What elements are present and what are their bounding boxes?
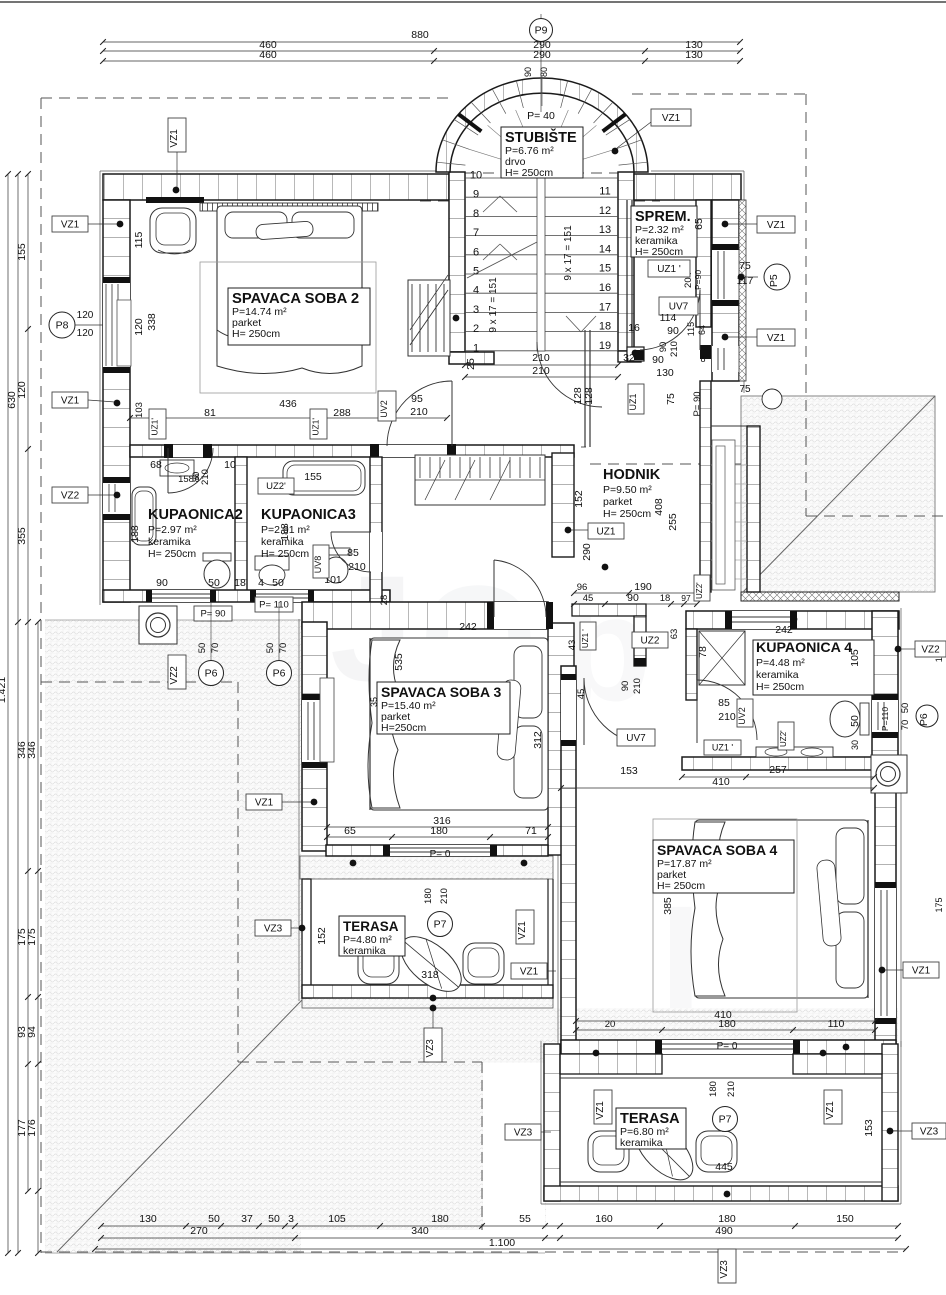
svg-text:180: 180 bbox=[430, 825, 448, 837]
svg-text:UZ2: UZ2 bbox=[641, 635, 660, 646]
svg-text:25: 25 bbox=[465, 358, 477, 370]
svg-text:VZ3: VZ3 bbox=[264, 923, 283, 934]
svg-text:880: 880 bbox=[411, 29, 429, 41]
svg-text:UZ1': UZ1' bbox=[311, 418, 321, 436]
svg-text:P= 0: P= 0 bbox=[430, 849, 451, 860]
svg-text:65: 65 bbox=[693, 218, 705, 230]
svg-text:9 x 17 = 151: 9 x 17 = 151 bbox=[563, 225, 574, 281]
svg-text:50: 50 bbox=[208, 1213, 220, 1225]
svg-text:8: 8 bbox=[473, 208, 479, 220]
svg-text:460: 460 bbox=[259, 49, 277, 61]
svg-text:VZ1: VZ1 bbox=[520, 966, 539, 977]
svg-text:UZ1: UZ1 bbox=[628, 393, 638, 410]
svg-text:UZ1': UZ1' bbox=[150, 418, 160, 436]
svg-text:55: 55 bbox=[519, 1213, 531, 1225]
svg-text:90: 90 bbox=[523, 67, 533, 77]
svg-text:155: 155 bbox=[16, 243, 28, 261]
svg-text:SPAVACA SOBA 3: SPAVACA SOBA 3 bbox=[381, 684, 502, 700]
svg-text:keramika: keramika bbox=[343, 945, 386, 957]
svg-text:50: 50 bbox=[208, 577, 220, 589]
svg-text:P= 110: P= 110 bbox=[259, 600, 289, 611]
svg-text:90: 90 bbox=[667, 325, 679, 337]
svg-text:VZ3: VZ3 bbox=[920, 1126, 939, 1137]
svg-text:16: 16 bbox=[599, 282, 611, 294]
svg-text:50: 50 bbox=[268, 1213, 280, 1225]
svg-text:210: 210 bbox=[348, 561, 366, 573]
svg-text:175: 175 bbox=[26, 928, 38, 946]
svg-text:VZ1: VZ1 bbox=[517, 921, 528, 940]
svg-text:385: 385 bbox=[662, 897, 674, 915]
svg-text:210: 210 bbox=[532, 352, 550, 364]
svg-text:9: 9 bbox=[473, 189, 479, 201]
svg-text:180: 180 bbox=[708, 1081, 719, 1097]
svg-text:UV7: UV7 bbox=[626, 733, 646, 744]
svg-text:340: 340 bbox=[411, 1225, 429, 1237]
svg-text:75: 75 bbox=[739, 260, 751, 272]
svg-text:436: 436 bbox=[279, 398, 297, 410]
svg-text:VZ1: VZ1 bbox=[825, 1101, 836, 1120]
svg-text:UZ2': UZ2' bbox=[266, 481, 286, 492]
svg-text:255: 255 bbox=[667, 513, 679, 531]
svg-text:35: 35 bbox=[369, 697, 379, 707]
svg-text:UV7: UV7 bbox=[669, 301, 689, 312]
svg-text:VZ1: VZ1 bbox=[169, 129, 180, 148]
svg-text:270: 270 bbox=[190, 1225, 208, 1237]
svg-text:70: 70 bbox=[900, 720, 911, 731]
svg-text:SPAVACA SOBA 2: SPAVACA SOBA 2 bbox=[232, 291, 359, 307]
svg-text:28: 28 bbox=[379, 595, 390, 606]
svg-text:15: 15 bbox=[599, 263, 611, 275]
svg-text:14: 14 bbox=[599, 243, 611, 255]
svg-text:120: 120 bbox=[77, 310, 94, 321]
svg-text:115: 115 bbox=[133, 231, 145, 248]
svg-text:78: 78 bbox=[697, 646, 709, 658]
svg-text:P6: P6 bbox=[918, 713, 930, 726]
svg-text:318: 318 bbox=[421, 969, 439, 981]
svg-text:257: 257 bbox=[769, 764, 787, 776]
svg-text:210: 210 bbox=[439, 888, 450, 904]
svg-text:110: 110 bbox=[828, 1018, 845, 1030]
svg-text:SPAVACA SOBA 4: SPAVACA SOBA 4 bbox=[657, 842, 778, 858]
svg-text:128: 128 bbox=[583, 387, 595, 405]
svg-text:64: 64 bbox=[697, 325, 707, 335]
svg-text:13: 13 bbox=[599, 224, 611, 236]
svg-text:96: 96 bbox=[577, 582, 588, 593]
svg-text:P= 0: P= 0 bbox=[717, 1041, 738, 1052]
svg-text:188: 188 bbox=[129, 525, 141, 543]
svg-text:90: 90 bbox=[620, 681, 631, 692]
svg-text:VZ2: VZ2 bbox=[61, 490, 80, 501]
svg-text:HODNIK: HODNIK bbox=[603, 467, 661, 483]
svg-text:VZ1: VZ1 bbox=[912, 965, 931, 976]
svg-text:346: 346 bbox=[26, 741, 38, 759]
svg-text:keramika: keramika bbox=[620, 1137, 663, 1149]
svg-text:P= 90: P= 90 bbox=[692, 391, 703, 416]
svg-text:155: 155 bbox=[304, 471, 322, 483]
svg-text:5: 5 bbox=[473, 266, 479, 278]
svg-text:TERASA: TERASA bbox=[343, 919, 399, 934]
svg-text:H= 250cm: H= 250cm bbox=[756, 681, 804, 693]
svg-text:90: 90 bbox=[156, 577, 168, 589]
svg-text:P=2.97 m²: P=2.97 m² bbox=[148, 524, 197, 536]
svg-text:VZ1: VZ1 bbox=[595, 1101, 606, 1120]
svg-text:95: 95 bbox=[411, 393, 423, 405]
svg-text:2: 2 bbox=[473, 323, 479, 335]
svg-text:153: 153 bbox=[863, 1119, 875, 1137]
svg-text:KUPAONICA3: KUPAONICA3 bbox=[261, 507, 356, 523]
svg-text:30: 30 bbox=[850, 740, 860, 750]
svg-text:290: 290 bbox=[533, 49, 551, 61]
svg-text:90: 90 bbox=[652, 354, 664, 366]
svg-text:P6: P6 bbox=[205, 668, 218, 680]
svg-text:105: 105 bbox=[849, 649, 861, 667]
svg-text:6: 6 bbox=[473, 246, 479, 258]
svg-text:180: 180 bbox=[718, 1018, 736, 1030]
svg-text:210: 210 bbox=[632, 678, 643, 694]
svg-text:70: 70 bbox=[210, 643, 221, 654]
svg-text:180: 180 bbox=[431, 1213, 449, 1225]
svg-text:UV2: UV2 bbox=[737, 707, 747, 725]
svg-text:90: 90 bbox=[627, 592, 639, 604]
svg-text:UZ1 ': UZ1 ' bbox=[712, 742, 734, 752]
svg-text:210: 210 bbox=[532, 365, 550, 377]
svg-text:288: 288 bbox=[333, 407, 351, 419]
svg-text:VZ2: VZ2 bbox=[169, 666, 180, 685]
svg-text:180: 180 bbox=[423, 888, 434, 904]
svg-text:parket: parket bbox=[603, 496, 632, 508]
svg-text:VZ1: VZ1 bbox=[61, 395, 80, 406]
svg-text:P7: P7 bbox=[434, 919, 447, 931]
svg-text:18: 18 bbox=[660, 593, 671, 604]
svg-text:50: 50 bbox=[197, 643, 208, 654]
svg-text:12: 12 bbox=[599, 205, 611, 217]
svg-text:120: 120 bbox=[133, 318, 145, 336]
svg-text:50: 50 bbox=[272, 577, 284, 589]
svg-text:VZ1: VZ1 bbox=[255, 797, 274, 808]
svg-text:H= 250cm: H= 250cm bbox=[657, 880, 705, 892]
svg-text:1.100: 1.100 bbox=[489, 1237, 515, 1249]
svg-text:312: 312 bbox=[532, 731, 544, 749]
svg-text:UZ2': UZ2' bbox=[779, 730, 788, 747]
svg-text:keramika: keramika bbox=[756, 669, 799, 681]
svg-text:VZ3: VZ3 bbox=[514, 1127, 533, 1138]
svg-text:10: 10 bbox=[470, 170, 482, 182]
svg-text:H=250cm: H=250cm bbox=[381, 722, 426, 734]
svg-text:85: 85 bbox=[347, 547, 359, 559]
svg-text:45: 45 bbox=[583, 593, 594, 604]
svg-text:75: 75 bbox=[739, 384, 751, 395]
svg-text:8: 8 bbox=[700, 354, 705, 364]
svg-text:90: 90 bbox=[658, 342, 669, 353]
svg-text:STUBIŠTE: STUBIŠTE bbox=[505, 128, 577, 146]
svg-text:37: 37 bbox=[241, 1213, 253, 1225]
svg-text:P=110: P=110 bbox=[880, 707, 890, 731]
svg-text:3: 3 bbox=[288, 1213, 294, 1225]
svg-text:UZ2': UZ2' bbox=[695, 582, 704, 599]
svg-text:19: 19 bbox=[599, 340, 611, 352]
svg-text:UV8: UV8 bbox=[313, 556, 323, 574]
svg-text:3: 3 bbox=[473, 304, 479, 316]
svg-text:355: 355 bbox=[16, 527, 28, 545]
svg-text:160: 160 bbox=[595, 1213, 613, 1225]
svg-text:210: 210 bbox=[200, 469, 211, 485]
svg-text:H= 250cm: H= 250cm bbox=[261, 548, 309, 560]
svg-text:115: 115 bbox=[686, 322, 696, 336]
svg-text:P5: P5 bbox=[768, 274, 780, 287]
svg-text:4: 4 bbox=[473, 285, 479, 297]
svg-text:UV2: UV2 bbox=[379, 400, 389, 418]
svg-text:71: 71 bbox=[525, 825, 537, 837]
svg-text:P7: P7 bbox=[719, 1114, 732, 1126]
svg-text:VZ1: VZ1 bbox=[662, 113, 681, 124]
svg-text:188: 188 bbox=[279, 523, 291, 541]
svg-text:50: 50 bbox=[849, 715, 861, 727]
svg-text:SPREM.: SPREM. bbox=[635, 209, 691, 225]
svg-text:158: 158 bbox=[178, 474, 194, 485]
svg-text:9 x 17 = 151: 9 x 17 = 151 bbox=[488, 277, 499, 333]
svg-text:VZ3: VZ3 bbox=[719, 1260, 730, 1279]
svg-text:7: 7 bbox=[473, 227, 479, 239]
svg-text:120: 120 bbox=[77, 328, 94, 339]
svg-text:81: 81 bbox=[204, 407, 216, 419]
svg-text:VZ1: VZ1 bbox=[767, 333, 786, 344]
svg-text:P=90: P=90 bbox=[693, 270, 703, 290]
svg-text:KUPAONICA 4: KUPAONICA 4 bbox=[756, 640, 852, 656]
svg-text:H= 250cm: H= 250cm bbox=[505, 167, 553, 179]
svg-text:68: 68 bbox=[150, 459, 162, 471]
svg-text:1.421: 1.421 bbox=[0, 677, 8, 703]
svg-text:114: 114 bbox=[660, 312, 677, 324]
svg-text:103: 103 bbox=[134, 402, 145, 418]
svg-text:242: 242 bbox=[775, 624, 793, 636]
svg-text:130: 130 bbox=[139, 1213, 157, 1225]
svg-text:50: 50 bbox=[900, 703, 911, 714]
svg-text:10: 10 bbox=[224, 459, 236, 471]
svg-text:153: 153 bbox=[620, 765, 638, 777]
svg-text:4: 4 bbox=[258, 577, 264, 589]
svg-text:8: 8 bbox=[195, 472, 200, 482]
svg-text:50: 50 bbox=[265, 643, 276, 654]
svg-text:P8: P8 bbox=[56, 320, 69, 332]
svg-text:210: 210 bbox=[410, 406, 428, 418]
svg-text:152: 152 bbox=[573, 490, 585, 508]
svg-text:H= 250cm: H= 250cm bbox=[232, 328, 280, 340]
svg-text:210: 210 bbox=[718, 711, 736, 723]
svg-text:TERASA: TERASA bbox=[620, 1111, 680, 1127]
svg-text:45: 45 bbox=[576, 689, 587, 700]
svg-text:H= 250cm: H= 250cm bbox=[603, 508, 651, 520]
svg-text:UZ1: UZ1 bbox=[597, 526, 616, 537]
svg-text:11: 11 bbox=[599, 186, 610, 198]
svg-text:VZ1: VZ1 bbox=[767, 220, 786, 231]
svg-text:VZ3: VZ3 bbox=[425, 1039, 436, 1058]
svg-text:P=9.50 m²: P=9.50 m² bbox=[603, 484, 652, 496]
svg-text:63: 63 bbox=[669, 629, 680, 640]
svg-text:105: 105 bbox=[328, 1213, 346, 1225]
svg-text:242: 242 bbox=[459, 621, 477, 633]
svg-text:152: 152 bbox=[316, 927, 328, 945]
svg-text:KUPAONICA2: KUPAONICA2 bbox=[148, 507, 243, 523]
svg-text:65: 65 bbox=[344, 825, 356, 837]
svg-text:1: 1 bbox=[473, 342, 479, 354]
svg-text:176: 176 bbox=[26, 1119, 38, 1137]
svg-text:180: 180 bbox=[718, 1213, 736, 1225]
svg-text:80: 80 bbox=[539, 67, 549, 77]
svg-text:P6: P6 bbox=[273, 668, 286, 680]
svg-text:17: 17 bbox=[599, 301, 611, 313]
svg-text:18: 18 bbox=[599, 321, 611, 333]
svg-text:535: 535 bbox=[393, 653, 405, 671]
svg-text:120: 120 bbox=[16, 381, 28, 399]
svg-text:H= 250cm: H= 250cm bbox=[635, 246, 683, 258]
svg-text:VZ1: VZ1 bbox=[61, 219, 80, 230]
svg-text:175: 175 bbox=[934, 897, 944, 912]
svg-text:UZ1 ': UZ1 ' bbox=[581, 629, 590, 648]
svg-text:94: 94 bbox=[26, 1026, 38, 1038]
svg-text:338: 338 bbox=[146, 313, 158, 331]
svg-text:UZ1 ': UZ1 ' bbox=[657, 264, 681, 275]
svg-text:150: 150 bbox=[836, 1213, 854, 1225]
svg-text:85: 85 bbox=[718, 697, 730, 709]
svg-text:210: 210 bbox=[726, 1081, 737, 1097]
svg-text:408: 408 bbox=[653, 498, 665, 516]
svg-text:P=4.48 m²: P=4.48 m² bbox=[756, 657, 805, 669]
svg-text:VZ2: VZ2 bbox=[921, 644, 940, 655]
svg-text:410: 410 bbox=[712, 776, 730, 788]
svg-text:P9: P9 bbox=[535, 25, 548, 37]
svg-text:20: 20 bbox=[605, 1019, 616, 1030]
svg-text:P= 90: P= 90 bbox=[200, 609, 225, 620]
svg-text:210: 210 bbox=[669, 341, 680, 357]
svg-text:130: 130 bbox=[656, 367, 674, 379]
svg-text:keramika: keramika bbox=[148, 536, 191, 548]
svg-text:290: 290 bbox=[581, 543, 593, 561]
svg-text:43: 43 bbox=[567, 640, 578, 651]
svg-text:18: 18 bbox=[234, 577, 246, 589]
svg-text:97: 97 bbox=[681, 593, 691, 603]
svg-text:75: 75 bbox=[665, 393, 677, 405]
svg-text:70: 70 bbox=[278, 643, 289, 654]
svg-text:130: 130 bbox=[685, 49, 703, 61]
svg-text:16: 16 bbox=[628, 322, 640, 334]
svg-text:445: 445 bbox=[715, 1161, 733, 1173]
svg-text:490: 490 bbox=[715, 1225, 733, 1237]
svg-text:H= 250cm: H= 250cm bbox=[148, 548, 196, 560]
